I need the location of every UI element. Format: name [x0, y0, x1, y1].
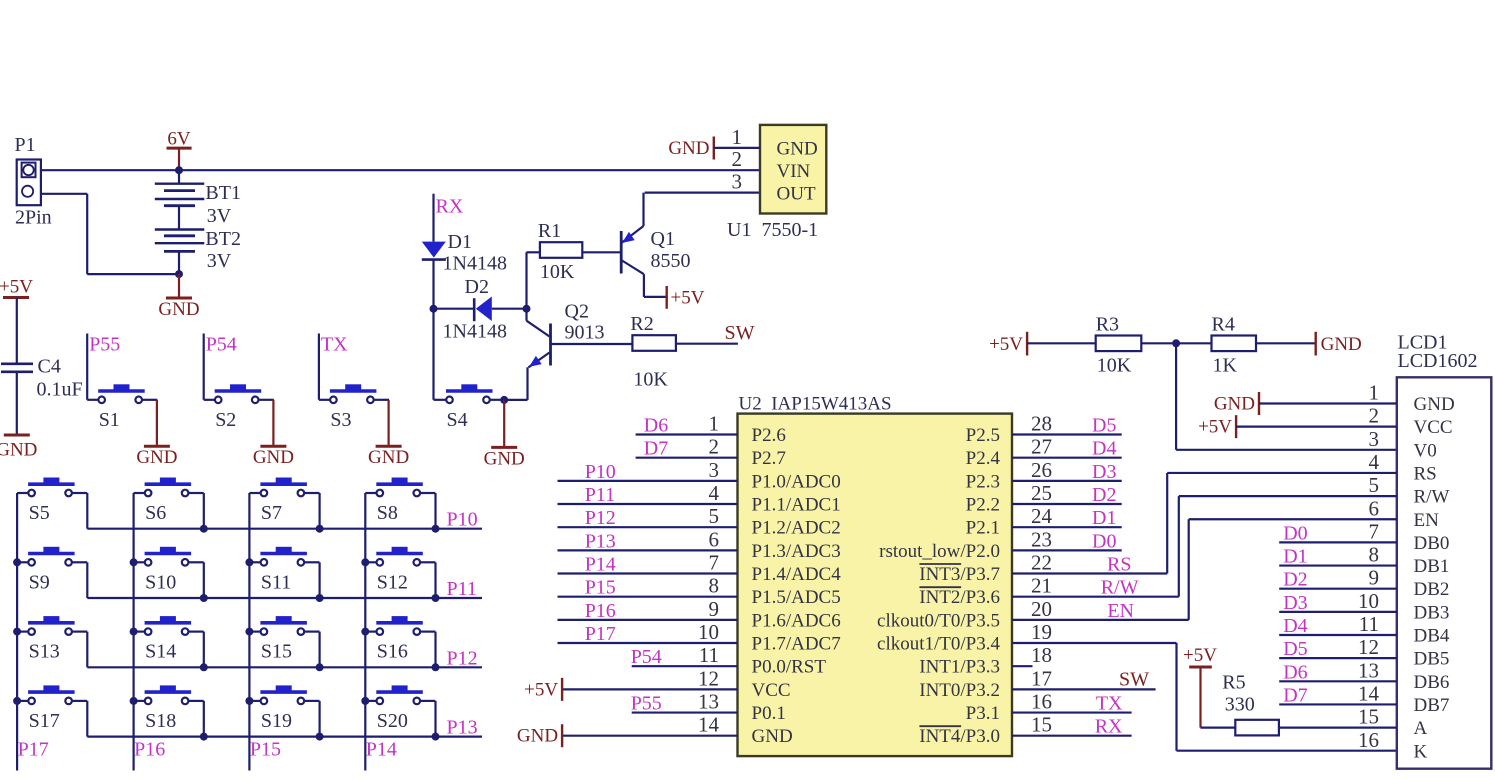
- wire battery middle: [178, 206, 180, 230]
- svg-text:LCD1602: LCD1602: [1398, 350, 1478, 372]
- svg-text:P2.1: P2.1: [966, 518, 1000, 539]
- wire P1 pin2 to battery negative: [41, 194, 179, 274]
- svg-text:P17: P17: [18, 739, 49, 761]
- svg-text:6: 6: [709, 527, 720, 551]
- wire S11 drop to row P11: [319, 562, 321, 598]
- svg-text:INT0/P3.2: INT0/P3.2: [919, 680, 1000, 701]
- svg-text:BT2: BT2: [205, 228, 241, 250]
- svg-text:R2: R2: [630, 313, 653, 335]
- transistor Q1 8550: [621, 226, 690, 274]
- power port +5V U2 VCC: [524, 678, 562, 701]
- junction battery negative: [175, 270, 183, 278]
- svg-text:10K: 10K: [1097, 354, 1132, 376]
- svg-text:S6: S6: [145, 502, 166, 524]
- svg-text:P2.7: P2.7: [752, 448, 786, 469]
- svg-text:DB3: DB3: [1414, 602, 1450, 623]
- power port +5V Q1: [667, 286, 705, 309]
- battery BT1 3V: [155, 170, 241, 227]
- svg-text:+5V: +5V: [1198, 417, 1232, 438]
- svg-text:S10: S10: [145, 571, 176, 593]
- wire LCD pin 9 net D2: [1279, 588, 1397, 590]
- svg-text:P2.6: P2.6: [752, 425, 786, 446]
- svg-text:9: 9: [709, 597, 720, 621]
- svg-text:D4: D4: [1283, 615, 1307, 637]
- wire S15 drop to row P12: [319, 632, 321, 668]
- pushbutton S14: [134, 617, 204, 663]
- wire U2 pin 5 net P12: [558, 526, 738, 528]
- transistor Q2 9013: [527, 301, 633, 368]
- svg-text:K: K: [1414, 741, 1428, 762]
- wire U2 pin 27 net D4: [1012, 457, 1122, 459]
- pushbutton S9: [17, 547, 87, 593]
- svg-text:D3: D3: [1283, 592, 1307, 614]
- wire LCD pin 11 net D4: [1279, 634, 1397, 636]
- svg-text:10: 10: [1358, 589, 1379, 613]
- junction S4 to Q2 emitter: [500, 396, 508, 404]
- svg-text:23: 23: [1031, 527, 1052, 551]
- U2 pin name INT2/P3.6: [919, 587, 1000, 608]
- svg-text:V0: V0: [1414, 440, 1437, 461]
- svg-text:BT1: BT1: [205, 182, 241, 204]
- wire C4 to ground: [16, 372, 18, 435]
- svg-text:R5: R5: [1222, 672, 1245, 694]
- pushbutton S4: [435, 385, 505, 431]
- wire R3 to R4: [1141, 342, 1211, 344]
- junction row P11 col 3: [316, 594, 324, 602]
- wire Q2 emitter to S4: [504, 367, 527, 400]
- wire LCD pin 7 net D0: [1279, 541, 1397, 543]
- svg-text:GND: GND: [668, 138, 709, 159]
- svg-text:RS: RS: [1414, 463, 1437, 484]
- wire LCD pin6 EN horizontal: [1189, 518, 1397, 520]
- svg-text:Q2: Q2: [565, 301, 589, 323]
- wire U2 pin 3 net P10: [558, 480, 738, 482]
- pushbutton S18: [134, 686, 204, 732]
- battery BT2 3V: [155, 228, 241, 272]
- svg-text:R4: R4: [1212, 313, 1235, 335]
- wire R1 left lead: [527, 251, 540, 253]
- svg-text:P2.2: P2.2: [966, 495, 1000, 516]
- power port +5V R3: [989, 332, 1027, 356]
- svg-text:+5V: +5V: [671, 288, 705, 309]
- svg-text:P1.4/ADC4: P1.4/ADC4: [752, 564, 842, 585]
- svg-text:P2.3: P2.3: [966, 471, 1000, 492]
- svg-text:rstout_low/P2.0: rstout_low/P2.0: [879, 541, 1000, 562]
- U2 pin name clkout0/T0/P3.5: [877, 610, 1000, 631]
- svg-text:R/W: R/W: [1414, 487, 1450, 508]
- svg-text:EN: EN: [1414, 510, 1440, 531]
- U2 pin name P3.1: [966, 703, 1000, 724]
- wire S10 drop to row P11: [203, 562, 205, 598]
- wire +5V to C4: [16, 298, 18, 364]
- svg-text:3: 3: [1369, 427, 1380, 451]
- svg-text:14: 14: [1358, 681, 1380, 705]
- junction column P15 row 4: [245, 697, 253, 705]
- wire U2 pin 9 net P16: [558, 619, 738, 621]
- junction column P16 row 2: [130, 558, 138, 566]
- wire LCD pin2: [1236, 426, 1397, 428]
- junction column P16 row 4: [130, 697, 138, 705]
- pushbutton S11: [249, 547, 319, 593]
- svg-text:12: 12: [1358, 635, 1379, 659]
- wire U2 pin 4 net P11: [558, 503, 738, 505]
- svg-text:INT3/P3.7: INT3/P3.7: [919, 564, 1000, 585]
- svg-text:1K: 1K: [1213, 354, 1238, 376]
- wire D1 to S4 left terminal: [434, 260, 436, 400]
- svg-text:DB4: DB4: [1414, 626, 1450, 647]
- svg-text:25: 25: [1031, 481, 1052, 505]
- svg-text:2: 2: [1369, 404, 1380, 428]
- wire S17 drop to row P13: [86, 701, 88, 737]
- junction row P13 col 3: [316, 733, 324, 741]
- wire U2 pin 26 net D3: [1012, 480, 1122, 482]
- junction column P17 row 4: [13, 697, 21, 705]
- svg-text:3V: 3V: [207, 205, 232, 227]
- wire U2 pin 15 RX: [1012, 735, 1132, 737]
- svg-text:5: 5: [1369, 473, 1380, 497]
- wire R5 to LCD pin15 A: [1279, 726, 1397, 728]
- wire U2 pin 19 to LCD K: [1012, 643, 1397, 751]
- svg-text:1N4148: 1N4148: [443, 253, 507, 275]
- svg-text:DB2: DB2: [1414, 579, 1450, 600]
- svg-text:S19: S19: [261, 710, 292, 732]
- svg-text:20: 20: [1031, 597, 1052, 621]
- power port +5V decoupling: [0, 277, 33, 298]
- svg-text:OUT: OUT: [777, 184, 816, 205]
- wire +5V to R3: [1027, 342, 1096, 344]
- svg-text:GND: GND: [158, 299, 199, 320]
- svg-text:P17: P17: [585, 623, 616, 645]
- wire U2 pin 20 EN to LCD: [1012, 519, 1189, 620]
- svg-text:P14: P14: [366, 739, 397, 761]
- resistor R5 330: [1222, 672, 1279, 736]
- svg-text:P1.3/ADC3: P1.3/ADC3: [752, 541, 841, 562]
- U2 pin name INT1/P3.3: [919, 657, 1000, 678]
- svg-text:C4: C4: [38, 356, 61, 378]
- svg-text:1: 1: [709, 412, 720, 436]
- wire LCD pin 13 net D6: [1279, 680, 1397, 682]
- wire U2 pin 12 +5V: [562, 688, 737, 690]
- junction row P12 col 3: [316, 663, 324, 671]
- svg-text:P10: P10: [585, 461, 616, 483]
- svg-text:19: 19: [1031, 620, 1052, 644]
- node RX stub: [434, 194, 464, 242]
- pushbutton S6: [134, 478, 204, 524]
- ground under S2: [253, 400, 294, 468]
- svg-text:P14: P14: [585, 554, 616, 576]
- svg-text:+5V: +5V: [524, 679, 558, 700]
- resistor R2 10K: [630, 313, 676, 391]
- svg-text:9013: 9013: [565, 322, 605, 344]
- svg-text:P1.2/ADC2: P1.2/ADC2: [752, 518, 841, 539]
- U2 pin name P2.1: [966, 518, 1000, 539]
- svg-text:RX: RX: [436, 196, 464, 218]
- svg-text:S16: S16: [377, 641, 408, 663]
- diode D2 1N4148: [434, 276, 527, 343]
- svg-text:4: 4: [709, 481, 720, 505]
- pushbutton S12: [365, 547, 435, 593]
- junction row P12 col 4: [432, 663, 440, 671]
- junction column P15 row 3: [245, 628, 253, 636]
- wire LCD pin 10 net D3: [1279, 611, 1397, 613]
- pushbutton S5: [17, 478, 87, 524]
- svg-text:TX: TX: [321, 334, 348, 356]
- svg-text:D0: D0: [1092, 530, 1116, 552]
- ground C4: [0, 435, 37, 461]
- svg-text:D1: D1: [1092, 507, 1116, 529]
- svg-text:GND: GND: [253, 447, 294, 468]
- wire R4 to GND: [1256, 342, 1316, 344]
- svg-text:2: 2: [732, 147, 743, 171]
- svg-text:S1: S1: [99, 409, 120, 431]
- junction column P14 row 4: [361, 697, 369, 705]
- wire U2 pin 17 SW: [1012, 688, 1156, 690]
- U2 pin name INT3/P3.7: [919, 564, 1000, 585]
- junction row P13 col 4: [432, 733, 440, 741]
- svg-text:P16: P16: [134, 739, 165, 761]
- connector P1 2Pin: [15, 134, 52, 229]
- node P55 stub: [87, 334, 120, 400]
- svg-text:P1.6/ADC6: P1.6/ADC6: [752, 610, 841, 631]
- svg-text:D5: D5: [1092, 415, 1116, 437]
- svg-text:P15: P15: [250, 739, 281, 761]
- svg-text:16: 16: [1358, 728, 1379, 752]
- svg-text:D2: D2: [465, 276, 489, 298]
- svg-text:DB6: DB6: [1414, 672, 1450, 693]
- svg-text:D1: D1: [448, 231, 472, 253]
- node TX stub: [319, 334, 348, 400]
- junction row P10 col 2: [200, 525, 208, 533]
- svg-text:S15: S15: [261, 641, 292, 663]
- power port +5V LCD pin2: [1198, 415, 1236, 438]
- wire LCD pin 12 net D5: [1279, 657, 1397, 659]
- wire U2 pin 25 net D2: [1012, 503, 1122, 505]
- svg-text:8: 8: [1369, 543, 1380, 567]
- svg-text:R/W: R/W: [1101, 577, 1139, 599]
- svg-text:5: 5: [709, 504, 720, 528]
- junction column P17 row 2: [13, 558, 21, 566]
- power port GND U2 GND: [517, 724, 562, 747]
- svg-text:EN: EN: [1107, 600, 1134, 622]
- U2 pin name clkout1/T0/P3.4: [877, 634, 1000, 655]
- svg-text:0.1uF: 0.1uF: [37, 379, 83, 401]
- svg-text:R1: R1: [538, 220, 561, 242]
- svg-text:8550: 8550: [651, 250, 691, 272]
- junction D2 R1 node: [523, 305, 531, 313]
- IC LCD1 LCD1602 body: [1397, 332, 1492, 769]
- pushbutton S17: [17, 686, 87, 732]
- wire S13 drop to row P12: [86, 632, 88, 668]
- wire S12 drop to row P11: [434, 562, 436, 598]
- svg-text:10K: 10K: [540, 261, 575, 283]
- svg-text:11: 11: [699, 643, 719, 667]
- ground port U1 pin1: [668, 137, 713, 160]
- pushbutton S19: [249, 686, 319, 732]
- svg-text:S12: S12: [377, 571, 408, 593]
- wire U2 pin 10 net P17: [558, 642, 738, 644]
- svg-text:3V: 3V: [207, 250, 232, 272]
- svg-text:A: A: [1414, 718, 1428, 739]
- ground under S1: [136, 400, 177, 468]
- pushbutton S3: [319, 385, 389, 431]
- svg-text:S9: S9: [29, 571, 50, 593]
- svg-text:D7: D7: [1283, 684, 1307, 706]
- svg-text:S5: S5: [29, 502, 50, 524]
- wire keypad row P11: [87, 597, 482, 599]
- wire +5V to R5: [1201, 667, 1236, 728]
- wire R1 left to Q2 collector: [525, 252, 527, 320]
- svg-text:SW: SW: [1119, 668, 1149, 690]
- wire U2 pin 28 net D5: [1012, 433, 1122, 435]
- svg-text:P15: P15: [585, 577, 616, 599]
- svg-text:11: 11: [1359, 612, 1379, 636]
- svg-text:7: 7: [709, 551, 720, 575]
- wire Q1 to +5V: [644, 274, 667, 297]
- svg-text:D4: D4: [1092, 438, 1116, 460]
- junction column P16 row 3: [130, 628, 138, 636]
- svg-text:10K: 10K: [633, 369, 668, 391]
- resistor R3 10K: [1096, 313, 1142, 376]
- pushbutton S10: [134, 547, 204, 593]
- wire U2 pin 13 net P55: [632, 711, 738, 713]
- svg-text:S2: S2: [215, 409, 236, 431]
- svg-text:17: 17: [1031, 666, 1052, 690]
- node P54 stub: [204, 334, 237, 400]
- svg-text:15: 15: [1031, 713, 1052, 737]
- svg-text:DB1: DB1: [1414, 556, 1450, 577]
- svg-text:DB5: DB5: [1414, 649, 1450, 670]
- svg-text:D0: D0: [1283, 522, 1307, 544]
- svg-text:GND: GND: [0, 440, 37, 461]
- wire LCD pin 14 net D7: [1279, 703, 1397, 705]
- U2 pin name INT4/P3.0: [919, 726, 1000, 747]
- junction row P10 col 4: [432, 525, 440, 533]
- pushbutton S1: [87, 385, 157, 431]
- svg-text:VCC: VCC: [1414, 417, 1453, 438]
- junction row P11 col 4: [432, 594, 440, 602]
- junction row P11 col 2: [200, 594, 208, 602]
- svg-text:3: 3: [709, 458, 720, 482]
- junction 6V node: [175, 166, 183, 174]
- svg-text:GND: GND: [1321, 334, 1362, 355]
- U2 pin name rstout_low/P2.0: [879, 541, 1000, 562]
- svg-text:D6: D6: [1283, 661, 1307, 683]
- wire U2 pin 24 net D1: [1012, 526, 1122, 528]
- wire keypad column P16: [133, 493, 135, 771]
- svg-text:P1.0/ADC0: P1.0/ADC0: [752, 471, 841, 492]
- svg-text:RS: RS: [1107, 554, 1131, 576]
- svg-text:3: 3: [732, 170, 743, 194]
- svg-text:P0.1: P0.1: [752, 703, 786, 724]
- svg-text:RX: RX: [1095, 716, 1123, 738]
- junction D1 D2 node: [430, 305, 438, 313]
- svg-text:26: 26: [1031, 458, 1052, 482]
- svg-text:+5V: +5V: [0, 277, 33, 298]
- svg-text:2Pin: 2Pin: [15, 207, 52, 229]
- wire S8 drop to row P10: [434, 493, 436, 529]
- svg-text:7: 7: [1369, 519, 1380, 543]
- svg-text:P12: P12: [585, 507, 616, 529]
- pushbutton S20: [365, 686, 435, 732]
- junction column P14 row 3: [361, 628, 369, 636]
- wire battery to ground node: [178, 251, 180, 274]
- svg-text:8: 8: [709, 574, 720, 598]
- pushbutton S15: [249, 617, 319, 663]
- wire U2 pin 8 net P15: [558, 596, 738, 598]
- IC U2 IAP15W413AS body: [738, 394, 1013, 757]
- svg-text:GND: GND: [368, 447, 409, 468]
- junction column P17 row 3: [13, 628, 21, 636]
- diode D1 1N4148: [422, 231, 507, 275]
- U2 pin name INT0/P3.2: [919, 680, 1000, 701]
- svg-text:P0.0/RST: P0.0/RST: [752, 657, 827, 678]
- pushbutton S16: [365, 617, 435, 663]
- U2 pin name P2.5: [966, 425, 1000, 446]
- svg-text:D6: D6: [644, 415, 668, 437]
- svg-text:P1: P1: [15, 134, 36, 156]
- wire keypad row P13: [87, 735, 482, 737]
- wire U2 pin 22 RS to LCD: [1012, 473, 1167, 574]
- U2 pin name P2.3: [966, 471, 1000, 492]
- svg-text:1: 1: [1369, 381, 1380, 405]
- pushbutton S13: [17, 617, 87, 663]
- wire S6 drop to row P10: [203, 493, 205, 529]
- svg-text:+5V: +5V: [989, 334, 1023, 355]
- wire S16 drop to row P12: [434, 632, 436, 668]
- wire U1 pin1: [714, 147, 760, 149]
- svg-text:S4: S4: [447, 409, 468, 431]
- wire S5 drop to row P10: [86, 493, 88, 529]
- svg-text:27: 27: [1031, 435, 1052, 459]
- svg-text:GND: GND: [136, 447, 177, 468]
- wire U2 pin 21 R/W to LCD: [1012, 496, 1179, 597]
- svg-text:6: 6: [1369, 496, 1380, 520]
- wire LCD pin 8 net D1: [1279, 564, 1397, 566]
- wire S14 drop to row P12: [203, 632, 205, 668]
- svg-text:INT2/P3.6: INT2/P3.6: [919, 587, 1000, 608]
- svg-text:15: 15: [1358, 705, 1379, 729]
- svg-text:22: 22: [1031, 551, 1052, 575]
- wire keypad row P10: [87, 528, 482, 530]
- wire U2 pin 6 net P13: [558, 549, 738, 551]
- svg-text:S17: S17: [29, 710, 60, 732]
- svg-text:13: 13: [1358, 658, 1379, 682]
- svg-text:P55: P55: [631, 693, 662, 715]
- svg-text:P1.7/ADC7: P1.7/ADC7: [752, 634, 841, 655]
- svg-text:21: 21: [1031, 574, 1052, 598]
- svg-text:1: 1: [732, 125, 743, 149]
- svg-text:P2.4: P2.4: [966, 448, 1001, 469]
- wire U2 pin 11 net P54: [632, 665, 738, 667]
- wire LCD pin1: [1259, 402, 1397, 404]
- ground port LCD pin1: [1214, 392, 1259, 415]
- svg-text:330: 330: [1225, 694, 1255, 716]
- svg-text:P54: P54: [631, 646, 662, 668]
- svg-text:P12: P12: [447, 647, 478, 669]
- junction column P15 row 2: [245, 558, 253, 566]
- svg-text:P11: P11: [447, 578, 477, 600]
- power port 6V: [167, 129, 192, 171]
- svg-text:GND: GND: [1414, 394, 1455, 415]
- svg-text:GND: GND: [777, 139, 818, 160]
- svg-text:S3: S3: [330, 409, 351, 431]
- svg-text:GND: GND: [517, 726, 558, 747]
- svg-text:DB7: DB7: [1414, 695, 1450, 716]
- wire V0 to LCD pin3: [1176, 343, 1397, 450]
- svg-text:P16: P16: [585, 600, 616, 622]
- svg-text:INT1/P3.3: INT1/P3.3: [919, 657, 1000, 678]
- resistor R1 10K: [538, 220, 582, 283]
